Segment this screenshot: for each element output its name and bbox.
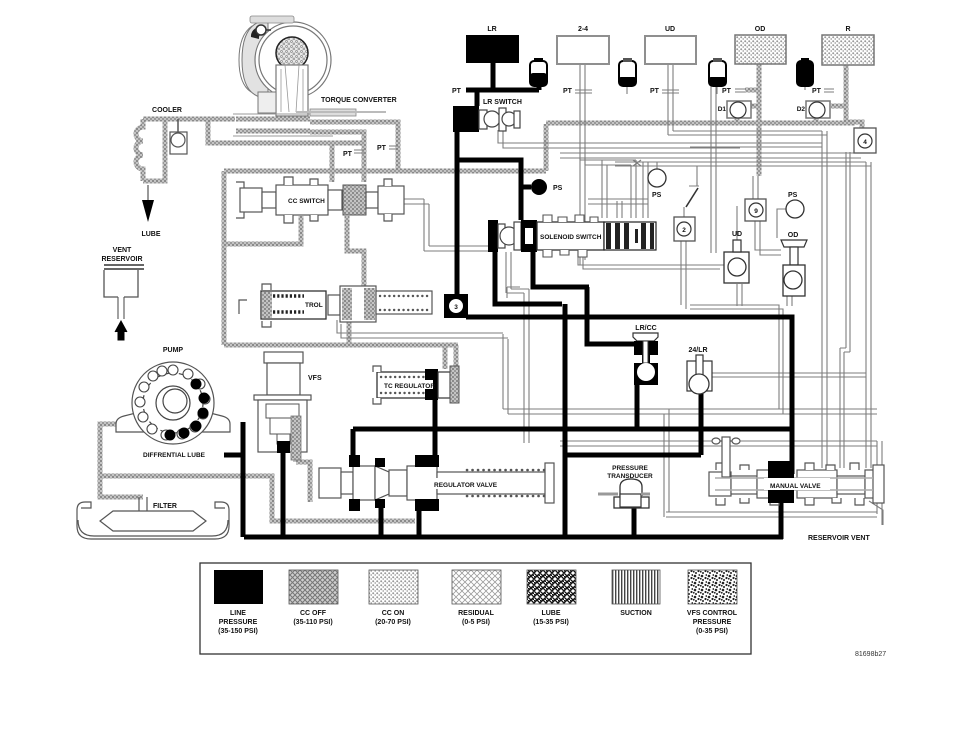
svg-text:CC SWITCH: CC SWITCH [288, 198, 325, 205]
svg-text:D2: D2 [797, 106, 806, 113]
svg-text:PT: PT [812, 88, 822, 95]
svg-text:OD: OD [755, 26, 766, 33]
svg-text:VENT: VENT [113, 247, 132, 254]
svg-text:MANUAL VALVE: MANUAL VALVE [770, 483, 821, 490]
svg-text:PT: PT [343, 151, 353, 158]
svg-text:(20-70 PSI): (20-70 PSI) [375, 619, 411, 626]
svg-text:PS: PS [652, 192, 662, 199]
svg-text:PRESSURE: PRESSURE [612, 465, 648, 472]
svg-text:RESERVOIR VENT: RESERVOIR VENT [808, 535, 870, 542]
svg-text:PRESSURE: PRESSURE [693, 619, 732, 626]
svg-text:RESERVOIR: RESERVOIR [101, 256, 142, 263]
svg-text:R: R [845, 26, 850, 33]
svg-text:3: 3 [454, 304, 458, 311]
svg-text:LR: LR [487, 26, 496, 33]
svg-text:PS: PS [788, 192, 798, 199]
svg-text:24/LR: 24/LR [688, 347, 707, 354]
svg-text:UD: UD [665, 26, 675, 33]
svg-text:SOLENOID SWITCH: SOLENOID SWITCH [540, 234, 602, 241]
svg-text:LR SWITCH: LR SWITCH [483, 99, 522, 106]
svg-text:2-4: 2-4 [578, 26, 588, 33]
svg-text:LUBE: LUBE [541, 610, 560, 617]
svg-text:TORQUE CONVERTER: TORQUE CONVERTER [321, 97, 397, 104]
svg-text:81698b27: 81698b27 [855, 651, 886, 658]
svg-text:VFS: VFS [308, 375, 322, 382]
svg-text:CC ON: CC ON [382, 610, 405, 617]
svg-text:COOLER: COOLER [152, 107, 182, 114]
svg-text:UD: UD [732, 231, 742, 238]
svg-text:PT: PT [377, 145, 387, 152]
svg-text:(0-35 PSI): (0-35 PSI) [696, 628, 728, 635]
svg-text:(35-150 PSI): (35-150 PSI) [218, 628, 258, 635]
svg-text:RESIDUAL: RESIDUAL [458, 610, 495, 617]
svg-text:LINE: LINE [230, 610, 246, 617]
svg-text:OD: OD [788, 232, 799, 239]
svg-text:(0-5 PSI): (0-5 PSI) [462, 619, 490, 626]
svg-text:2: 2 [682, 227, 686, 234]
svg-text:PRESSURE: PRESSURE [219, 619, 258, 626]
svg-text:PT: PT [563, 88, 573, 95]
svg-text:REGULATOR VALVE: REGULATOR VALVE [434, 482, 498, 489]
svg-text:LUBE: LUBE [141, 231, 160, 238]
svg-text:D1: D1 [718, 106, 727, 113]
svg-text:TC REGULATOR: TC REGULATOR [384, 383, 435, 390]
svg-text:PS: PS [553, 185, 563, 192]
svg-text:PUMP: PUMP [163, 347, 184, 354]
svg-text:PT: PT [452, 88, 462, 95]
svg-text:TROL: TROL [305, 302, 323, 309]
svg-text:(15-35 PSI): (15-35 PSI) [533, 619, 569, 626]
svg-text:9: 9 [754, 208, 758, 215]
svg-text:FILTER: FILTER [153, 503, 177, 510]
svg-text:(35-110 PSI): (35-110 PSI) [293, 619, 332, 626]
svg-text:VFS CONTROL: VFS CONTROL [687, 610, 738, 617]
svg-text:CC OFF: CC OFF [300, 610, 327, 617]
svg-text:LR/CC: LR/CC [635, 325, 656, 332]
svg-text:PT: PT [650, 88, 660, 95]
svg-text:PT: PT [722, 88, 732, 95]
svg-text:DIFFRENTIAL LUBE: DIFFRENTIAL LUBE [143, 452, 206, 459]
svg-text:4: 4 [863, 139, 867, 146]
svg-text:SUCTION: SUCTION [620, 610, 652, 617]
